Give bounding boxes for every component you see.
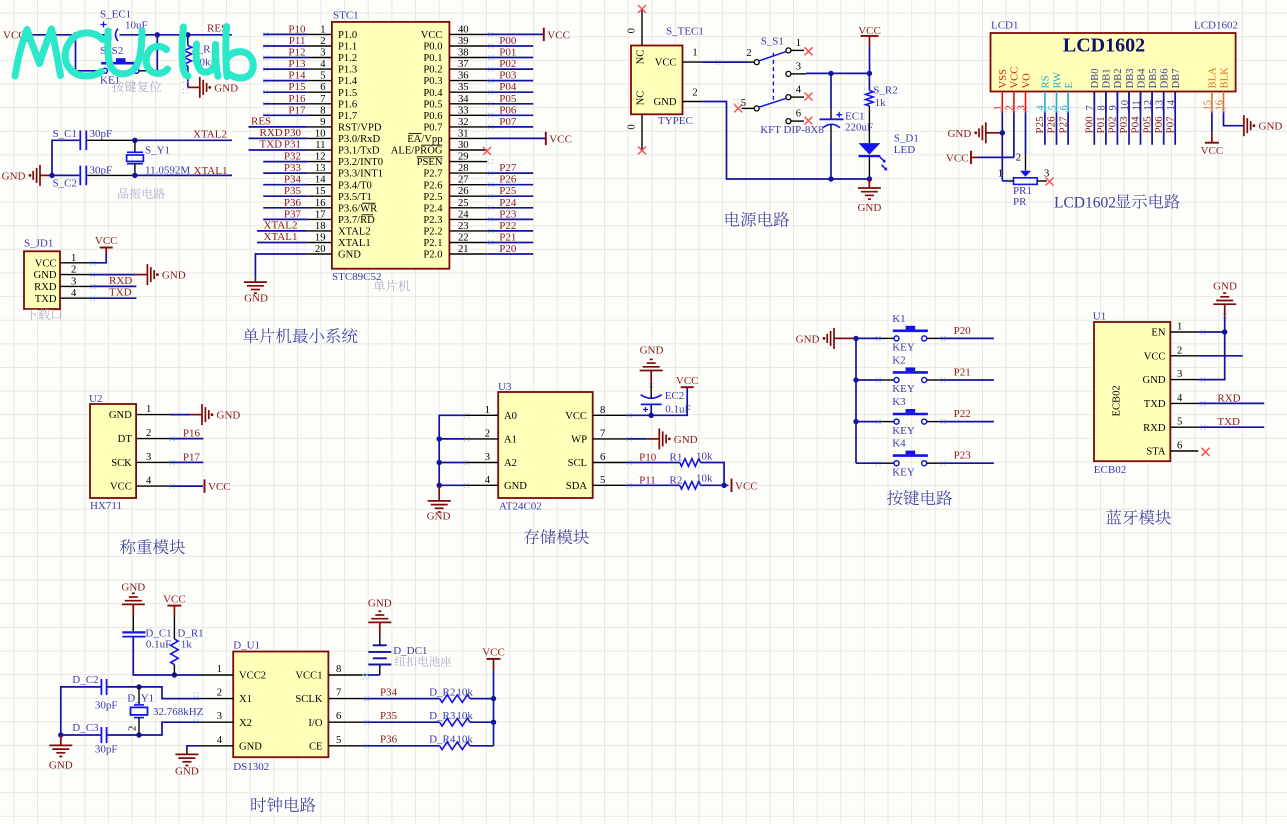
- svg-text:23: 23: [458, 221, 469, 232]
- svg-text:DB2: DB2: [1113, 68, 1124, 88]
- svg-text:P23: P23: [954, 450, 972, 462]
- svg-text:A1: A1: [504, 435, 517, 446]
- svg-text:P25: P25: [499, 185, 517, 197]
- svg-text:2: 2: [485, 428, 490, 439]
- svg-text:8: 8: [320, 105, 325, 116]
- svg-text:1: 1: [692, 48, 697, 59]
- svg-text:TYPEC: TYPEC: [658, 115, 693, 127]
- svg-text:GND: GND: [1213, 281, 1237, 293]
- svg-text:P10: P10: [288, 23, 306, 35]
- svg-text:P03: P03: [499, 70, 517, 82]
- svg-text:GND: GND: [214, 82, 238, 94]
- svg-text:DT: DT: [118, 434, 133, 445]
- svg-text:18: 18: [315, 221, 326, 232]
- svg-text:D_DC1: D_DC1: [393, 645, 427, 657]
- svg-text:P13: P13: [288, 58, 306, 70]
- svg-text:GND: GND: [654, 97, 677, 108]
- svg-text:ECB02: ECB02: [1112, 385, 1123, 416]
- svg-text:P02: P02: [1107, 116, 1119, 133]
- svg-text:3: 3: [320, 48, 325, 59]
- svg-text:P26: P26: [1046, 116, 1058, 134]
- svg-text:GND: GND: [109, 410, 132, 421]
- svg-text:XTAL2: XTAL2: [193, 128, 227, 140]
- svg-text:VCC: VCC: [676, 375, 699, 387]
- svg-text:P1.1: P1.1: [338, 42, 357, 53]
- svg-text:D_R3: D_R3: [429, 710, 456, 722]
- svg-text:1: 1: [217, 664, 222, 675]
- svg-text:P2.1: P2.1: [423, 238, 442, 249]
- svg-text:GND: GND: [217, 410, 241, 422]
- svg-text:P3.6/WR: P3.6/WR: [338, 203, 378, 214]
- svg-text:D_C2: D_C2: [72, 674, 98, 686]
- svg-text:P1.6: P1.6: [338, 99, 357, 110]
- svg-text:SCLK: SCLK: [295, 694, 322, 705]
- svg-text:GND: GND: [640, 345, 664, 357]
- svg-text:KEY: KEY: [892, 466, 915, 478]
- svg-text:VCC: VCC: [482, 646, 505, 658]
- svg-text:P2.4: P2.4: [423, 203, 443, 214]
- svg-text:LCD1: LCD1: [991, 20, 1019, 32]
- svg-text:11: 11: [315, 140, 325, 151]
- svg-text:RXD: RXD: [1217, 392, 1240, 404]
- svg-text:LCD1602: LCD1602: [1194, 20, 1238, 32]
- svg-text:GND: GND: [175, 766, 199, 778]
- svg-text:14: 14: [315, 175, 326, 186]
- svg-text:10k: 10k: [696, 472, 713, 484]
- svg-text:6: 6: [320, 82, 325, 93]
- svg-text:P0.0: P0.0: [423, 42, 442, 53]
- svg-text:XTAL2: XTAL2: [338, 227, 371, 238]
- svg-text:CE: CE: [309, 741, 323, 752]
- svg-text:3: 3: [485, 452, 490, 463]
- svg-text:P01: P01: [499, 47, 516, 59]
- svg-text:P34: P34: [284, 174, 302, 186]
- svg-text:P23: P23: [499, 208, 517, 220]
- svg-text:4: 4: [796, 85, 802, 96]
- svg-text:S_Y1: S_Y1: [145, 145, 170, 157]
- svg-text:LCD1602: LCD1602: [1054, 195, 1116, 212]
- svg-text:10k: 10k: [456, 734, 473, 746]
- svg-text:30pF: 30pF: [95, 700, 118, 712]
- svg-text:GND: GND: [674, 434, 698, 446]
- svg-text:7: 7: [320, 94, 325, 105]
- svg-text:P3.3/INT1: P3.3/INT1: [338, 169, 383, 180]
- svg-text:VCC: VCC: [421, 30, 443, 41]
- svg-text:P2.6: P2.6: [423, 180, 442, 191]
- svg-text:P0.1: P0.1: [423, 53, 442, 64]
- svg-text:40: 40: [458, 24, 469, 35]
- svg-text:P01: P01: [1095, 116, 1107, 133]
- svg-text:KEY: KEY: [892, 425, 915, 437]
- svg-text:P1.5: P1.5: [338, 88, 357, 99]
- svg-text:P00: P00: [499, 35, 517, 47]
- svg-text:P05: P05: [1141, 116, 1153, 134]
- svg-text:10k: 10k: [456, 710, 473, 722]
- svg-text:P16: P16: [183, 428, 201, 440]
- svg-text:39: 39: [458, 36, 469, 47]
- svg-text:P26: P26: [499, 174, 517, 186]
- svg-text:VCC1: VCC1: [295, 671, 322, 682]
- svg-text:EA/Vpp: EA/Vpp: [407, 134, 442, 145]
- svg-text:XTAL1: XTAL1: [194, 165, 228, 177]
- svg-text:10k: 10k: [696, 451, 713, 463]
- svg-text:AT24C02: AT24C02: [499, 501, 542, 513]
- svg-text:P1.3: P1.3: [338, 65, 357, 76]
- svg-text:EC2: EC2: [665, 390, 685, 402]
- svg-text:P27: P27: [499, 162, 517, 174]
- svg-text:NC: NC: [636, 91, 647, 106]
- svg-text:P3.2/INT0: P3.2/INT0: [338, 157, 383, 168]
- svg-text:P17: P17: [288, 104, 306, 116]
- svg-text:KFT DIP-8X8: KFT DIP-8X8: [760, 124, 824, 136]
- svg-text:P36: P36: [380, 734, 398, 746]
- svg-text:GND: GND: [427, 511, 451, 523]
- svg-text:WP: WP: [571, 435, 587, 446]
- svg-text:2: 2: [1016, 153, 1021, 164]
- svg-text:P0.2: P0.2: [423, 65, 442, 76]
- svg-text:X2: X2: [239, 718, 252, 729]
- svg-text:GND: GND: [162, 270, 186, 282]
- svg-text:32: 32: [458, 117, 469, 128]
- svg-text:3: 3: [146, 452, 151, 463]
- svg-text:27: 27: [458, 175, 469, 186]
- svg-text:P12: P12: [288, 47, 305, 59]
- svg-text:DB7: DB7: [1171, 68, 1182, 88]
- svg-text:VCC: VCC: [1010, 67, 1021, 89]
- svg-text:P32: P32: [284, 151, 301, 163]
- svg-text:3: 3: [1177, 369, 1182, 380]
- svg-text:VCC: VCC: [110, 482, 132, 493]
- svg-text:30pF: 30pF: [90, 165, 113, 177]
- svg-text:PR: PR: [1013, 196, 1027, 208]
- svg-text:26: 26: [458, 186, 469, 197]
- svg-text:3: 3: [71, 276, 76, 287]
- svg-text:P06: P06: [1153, 116, 1165, 134]
- svg-text:4: 4: [485, 475, 491, 486]
- svg-text:VCC: VCC: [95, 235, 118, 247]
- svg-text:VCC: VCC: [208, 481, 231, 493]
- svg-text:P1.4: P1.4: [338, 76, 358, 87]
- svg-text:P0.5: P0.5: [423, 99, 442, 110]
- svg-text:KEY: KEY: [892, 383, 915, 395]
- svg-text:3: 3: [796, 61, 801, 72]
- svg-text:3: 3: [1044, 169, 1049, 180]
- svg-text:K4: K4: [892, 438, 906, 450]
- svg-text:P33: P33: [284, 162, 302, 174]
- svg-text:GND: GND: [49, 760, 73, 772]
- svg-text:P11: P11: [639, 474, 656, 486]
- svg-text:P20: P20: [499, 243, 517, 255]
- svg-text:D_R4: D_R4: [429, 734, 456, 746]
- svg-text:2: 2: [146, 428, 151, 439]
- svg-text:P27: P27: [1057, 116, 1069, 134]
- svg-text:2: 2: [1177, 345, 1182, 356]
- svg-text:P34: P34: [380, 686, 398, 698]
- svg-text:RS: RS: [1041, 75, 1052, 88]
- svg-text:GND: GND: [34, 270, 57, 281]
- svg-text:P1.0: P1.0: [338, 30, 357, 41]
- svg-text:VSS: VSS: [998, 69, 1009, 89]
- svg-text:P2.2: P2.2: [423, 227, 442, 238]
- svg-text:GND: GND: [121, 582, 145, 594]
- svg-text:6: 6: [796, 109, 801, 120]
- svg-text:K3: K3: [892, 396, 906, 408]
- svg-text:P21: P21: [499, 232, 516, 244]
- svg-text:R1: R1: [670, 452, 683, 464]
- svg-text:VCC: VCC: [163, 593, 186, 605]
- svg-text:P21: P21: [954, 366, 971, 378]
- svg-text:P10: P10: [639, 452, 657, 464]
- svg-text:LCD1602: LCD1602: [1063, 35, 1145, 57]
- svg-text:9: 9: [320, 117, 325, 128]
- svg-text:P0.3: P0.3: [423, 76, 442, 87]
- svg-text:1: 1: [71, 253, 76, 264]
- svg-text:6: 6: [336, 711, 341, 722]
- svg-text:VCC: VCC: [565, 411, 587, 422]
- svg-text:P22: P22: [954, 408, 971, 420]
- svg-text:16: 16: [315, 198, 326, 209]
- svg-text:2: 2: [320, 36, 325, 47]
- svg-text:P00: P00: [1084, 116, 1096, 134]
- svg-text:P20: P20: [954, 325, 972, 337]
- svg-text:GND: GND: [796, 333, 820, 345]
- svg-text:RXD: RXD: [34, 282, 57, 293]
- svg-text:2: 2: [71, 265, 76, 276]
- svg-text:GND: GND: [504, 481, 527, 492]
- svg-text:P17: P17: [183, 451, 201, 463]
- svg-text:7: 7: [336, 688, 341, 699]
- svg-text:P04: P04: [1130, 116, 1142, 134]
- svg-text:4: 4: [217, 735, 223, 746]
- svg-text:2: 2: [128, 726, 139, 731]
- svg-text:17: 17: [315, 209, 326, 220]
- svg-text:1: 1: [998, 169, 1003, 180]
- svg-text:P0.7: P0.7: [423, 123, 442, 134]
- svg-text:P1.7: P1.7: [338, 111, 357, 122]
- svg-text:RXD: RXD: [260, 127, 283, 139]
- svg-text:8: 8: [600, 405, 605, 416]
- svg-text:S_TEC1: S_TEC1: [666, 26, 704, 38]
- svg-text:S_C1: S_C1: [53, 128, 77, 140]
- svg-text:DB3: DB3: [1125, 68, 1136, 88]
- svg-text:1: 1: [485, 405, 490, 416]
- svg-text:25: 25: [458, 198, 469, 209]
- svg-text:DB1: DB1: [1102, 68, 1113, 88]
- svg-text:BLA: BLA: [1208, 67, 1219, 89]
- svg-text:K1: K1: [892, 313, 905, 325]
- svg-text:E: E: [1064, 82, 1075, 88]
- svg-text:24: 24: [458, 209, 469, 220]
- svg-text:5: 5: [600, 475, 605, 486]
- svg-text:0.1uF: 0.1uF: [665, 404, 690, 416]
- svg-text:P0.6: P0.6: [423, 111, 442, 122]
- svg-text:P06: P06: [499, 104, 517, 116]
- svg-text:6: 6: [600, 452, 605, 463]
- svg-text:P31: P31: [284, 138, 301, 150]
- svg-text:VCC: VCC: [549, 133, 572, 145]
- svg-text:TXD: TXD: [109, 287, 132, 299]
- svg-text:TXD: TXD: [35, 294, 57, 305]
- svg-text:D_R2: D_R2: [429, 686, 455, 698]
- svg-text:S_D1: S_D1: [894, 133, 919, 145]
- svg-text:VCC: VCC: [655, 58, 677, 69]
- svg-text:D_C3: D_C3: [72, 722, 99, 734]
- svg-text:33: 33: [458, 105, 469, 116]
- svg-text:20: 20: [315, 244, 326, 255]
- svg-text:P22: P22: [499, 220, 516, 232]
- svg-text:P3.4/T0: P3.4/T0: [338, 180, 372, 191]
- svg-text:P1.2: P1.2: [338, 53, 357, 64]
- svg-text:D_Y1: D_Y1: [127, 693, 154, 705]
- svg-text:4: 4: [71, 288, 77, 299]
- svg-text:P25: P25: [1034, 116, 1046, 134]
- svg-text:1: 1: [320, 24, 325, 35]
- svg-text:31: 31: [458, 128, 469, 139]
- svg-text:U1: U1: [1093, 311, 1106, 323]
- svg-text:BLK: BLK: [1219, 67, 1230, 89]
- svg-text:29: 29: [458, 152, 469, 163]
- svg-text:ECB02: ECB02: [1094, 464, 1126, 476]
- svg-text:HX711: HX711: [90, 500, 122, 512]
- svg-text:GND: GND: [1143, 375, 1166, 386]
- svg-text:0: 0: [627, 124, 638, 129]
- svg-text:4: 4: [320, 59, 326, 70]
- svg-text:VCC: VCC: [1201, 145, 1224, 157]
- svg-text:15: 15: [315, 186, 326, 197]
- svg-text:DB0: DB0: [1090, 68, 1101, 88]
- svg-text:STA: STA: [1146, 447, 1166, 458]
- svg-text:10: 10: [315, 128, 326, 139]
- svg-text:EC1: EC1: [845, 111, 865, 123]
- svg-text:S_R2: S_R2: [873, 85, 897, 97]
- svg-text:13: 13: [315, 163, 326, 174]
- svg-text:A0: A0: [504, 411, 517, 422]
- svg-text:GND: GND: [1259, 121, 1283, 133]
- svg-text:P2.3: P2.3: [423, 215, 442, 226]
- svg-text:VCC: VCC: [946, 152, 969, 164]
- svg-text:XTAL1: XTAL1: [264, 231, 298, 243]
- svg-text:2: 2: [692, 87, 697, 98]
- svg-text:XTAL2: XTAL2: [264, 219, 298, 231]
- svg-text:VCC2: VCC2: [239, 671, 266, 682]
- svg-text:5: 5: [741, 98, 746, 109]
- svg-text:NC: NC: [636, 50, 647, 65]
- svg-text:SCK: SCK: [111, 458, 132, 469]
- svg-text:22: 22: [458, 233, 469, 244]
- svg-text:12: 12: [315, 152, 326, 163]
- svg-text:PR1: PR1: [1013, 185, 1032, 197]
- svg-text:RW: RW: [1052, 72, 1063, 88]
- svg-text:P3.0/RxD: P3.0/RxD: [338, 134, 380, 145]
- svg-text:P07: P07: [1164, 116, 1176, 134]
- svg-text:DB4: DB4: [1136, 68, 1147, 89]
- svg-text:GND: GND: [239, 741, 262, 752]
- svg-text:0: 0: [627, 28, 638, 33]
- svg-text:P11: P11: [289, 35, 306, 47]
- svg-text:RXD: RXD: [109, 275, 132, 287]
- svg-text:ALE/PROG: ALE/PROG: [391, 146, 443, 157]
- svg-text:P36: P36: [284, 197, 302, 209]
- svg-text:2: 2: [746, 48, 751, 59]
- svg-text:EN: EN: [1151, 328, 1165, 339]
- svg-text:S_C2: S_C2: [53, 178, 77, 190]
- svg-text:P14: P14: [288, 70, 306, 82]
- svg-text:DS1302: DS1302: [233, 761, 269, 773]
- svg-text:P24: P24: [499, 197, 517, 209]
- svg-text:P04: P04: [499, 81, 517, 93]
- svg-text:P35: P35: [380, 710, 398, 722]
- svg-text:LED: LED: [894, 144, 915, 156]
- svg-text:36: 36: [458, 71, 469, 82]
- svg-text:7: 7: [600, 428, 605, 439]
- svg-text:SDA: SDA: [566, 481, 588, 492]
- svg-text:KEY: KEY: [892, 342, 915, 354]
- svg-text:P05: P05: [499, 93, 517, 105]
- svg-text:P3.1/TxD: P3.1/TxD: [338, 146, 380, 157]
- svg-text:4: 4: [146, 476, 152, 487]
- svg-text:P03: P03: [1118, 116, 1130, 134]
- svg-text:STC1: STC1: [333, 10, 359, 22]
- svg-text:SCL: SCL: [568, 458, 587, 469]
- svg-text:K2: K2: [892, 355, 905, 367]
- svg-text:P35: P35: [284, 185, 302, 197]
- svg-text:I/O: I/O: [308, 718, 322, 729]
- svg-text:PSEN: PSEN: [417, 157, 443, 168]
- svg-text:P3.5/T1: P3.5/T1: [338, 192, 372, 203]
- svg-text:D_U1: D_U1: [233, 640, 260, 652]
- svg-text:TXD: TXD: [1144, 399, 1166, 410]
- svg-text:GND: GND: [857, 202, 881, 214]
- svg-text:38: 38: [458, 48, 469, 59]
- svg-text:21: 21: [458, 244, 469, 255]
- svg-text:S_JD1: S_JD1: [24, 238, 53, 250]
- svg-text:1: 1: [146, 404, 151, 415]
- svg-text:2: 2: [217, 688, 222, 699]
- svg-text:30: 30: [458, 140, 469, 151]
- svg-text:37: 37: [458, 59, 469, 70]
- svg-text:1: 1: [1177, 322, 1182, 333]
- svg-text:DB5: DB5: [1148, 68, 1159, 88]
- svg-text:P2.0: P2.0: [423, 250, 442, 261]
- svg-text:VCC: VCC: [735, 480, 758, 492]
- svg-text:DB6: DB6: [1160, 68, 1171, 88]
- svg-text:8: 8: [336, 664, 341, 675]
- svg-text:GND: GND: [338, 250, 361, 261]
- svg-text:P30: P30: [284, 127, 302, 139]
- svg-text:P3.7/RD: P3.7/RD: [338, 215, 375, 226]
- svg-text:35: 35: [458, 82, 469, 93]
- svg-text:R2: R2: [670, 474, 683, 486]
- svg-text:P16: P16: [288, 93, 306, 105]
- svg-text:28: 28: [458, 163, 469, 174]
- svg-text:TXD: TXD: [1217, 416, 1240, 428]
- svg-text:1k: 1k: [875, 97, 887, 109]
- svg-text:5: 5: [1177, 417, 1182, 428]
- svg-text:5: 5: [336, 735, 341, 746]
- svg-text:X1: X1: [239, 694, 252, 705]
- svg-text:1k: 1k: [181, 638, 193, 650]
- svg-text:3: 3: [217, 711, 222, 722]
- svg-text:P02: P02: [499, 58, 516, 70]
- svg-text:VCC: VCC: [547, 29, 570, 41]
- svg-text:A2: A2: [504, 458, 517, 469]
- svg-text:VCC: VCC: [1144, 351, 1166, 362]
- svg-text:VO: VO: [1021, 73, 1032, 89]
- svg-text:4: 4: [1177, 393, 1183, 404]
- svg-text:P2.7: P2.7: [423, 169, 442, 180]
- svg-text:30pF: 30pF: [95, 744, 118, 756]
- svg-text:32.768kHZ: 32.768kHZ: [153, 706, 204, 718]
